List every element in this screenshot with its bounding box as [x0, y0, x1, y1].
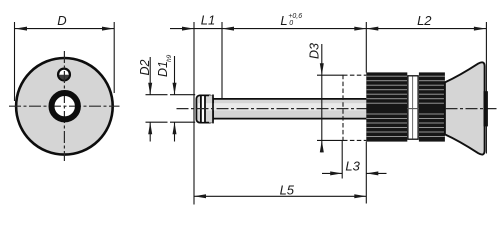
svg-text:D1: D1: [156, 61, 170, 77]
svg-text:L3: L3: [345, 158, 360, 173]
svg-text:D2: D2: [138, 59, 152, 75]
svg-text:h9: h9: [166, 54, 173, 62]
svg-text:L5: L5: [280, 183, 295, 198]
svg-text:L2: L2: [417, 13, 432, 28]
svg-text:L: L: [280, 13, 287, 28]
svg-text:D3: D3: [308, 43, 322, 59]
svg-text:D: D: [57, 13, 66, 28]
svg-text:+0,6: +0,6: [288, 13, 302, 20]
svg-text:0: 0: [289, 20, 293, 27]
svg-text:L1: L1: [201, 13, 215, 28]
